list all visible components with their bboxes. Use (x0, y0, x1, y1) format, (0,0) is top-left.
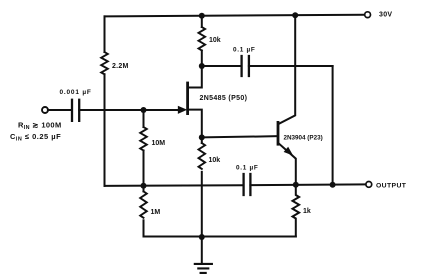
wire drain node to cap (202, 65, 242, 67)
wire output line right segment (250, 183, 365, 186)
junction dot 10M-1M-output line (141, 183, 147, 189)
wire right vertical (332, 66, 334, 185)
resistor 10k (drain) (199, 27, 206, 51)
resistor 2.2M (101, 52, 108, 74)
JFET 2N5485 gate arrow (178, 106, 186, 113)
svg-text:0.001 µF: 0.001 µF (60, 89, 92, 96)
ground (201, 237, 203, 264)
junction dot ground line (199, 234, 205, 240)
junction dot rail-10k (199, 13, 205, 19)
wire left vertical lower (2.2M to output line) (104, 74, 106, 186)
svg-text:1k: 1k (303, 208, 311, 215)
terminal input (42, 107, 48, 113)
junction dot gate-10M (141, 107, 147, 113)
svg-text:1M: 1M (151, 209, 161, 216)
resistor 1M (140, 191, 147, 217)
wire 1M bottom / ground line (144, 236, 296, 238)
resistor 1k (292, 185, 299, 237)
svg-text:2N5485 (P50): 2N5485 (P50) (200, 95, 248, 102)
junction dot emitter-output (293, 182, 299, 188)
junction dot drain node (199, 63, 205, 69)
svg-text:10k: 10k (209, 157, 221, 164)
terminal 30V (365, 12, 371, 18)
svg-text:2.2M: 2.2M (112, 63, 129, 70)
junction dot rail-collector (292, 12, 298, 18)
wire middle vertical rail lead (201, 16, 203, 27)
svg-text:10k: 10k (209, 37, 221, 44)
wire source to 10k2 (201, 137, 203, 143)
wire top supply rail (105, 15, 365, 17)
BJT 2N3904 emitter (279, 144, 296, 185)
JFET 2N5485 source lead (189, 110, 202, 138)
svg-text:0.1 µF: 0.1 µF (236, 165, 258, 172)
capacitor 0.1uF bottom (244, 174, 251, 195)
JFET 2N5485 gate wire (144, 109, 179, 111)
wire left vertical upper (rail to 2.2M) (104, 16, 106, 52)
wire 10M bottom lead (143, 151, 145, 186)
wire 10k2 to ground line (201, 172, 203, 237)
wire cap to gate (79, 109, 178, 111)
svg-text:OUTPUT: OUTPUT (376, 182, 407, 189)
BJT 2N3904 emitter arrow (284, 147, 292, 155)
svg-text:30V: 30V (379, 12, 392, 19)
svg-text:RIN ≳ 100M: RIN ≳ 100M (18, 121, 62, 132)
wire 1M top lead (143, 186, 145, 192)
wire output line left segment (105, 184, 243, 187)
capacitor 0.001uF (72, 100, 79, 121)
wire 10M top lead (143, 110, 145, 127)
junction dot source node (199, 134, 205, 140)
svg-text:CIN ≤ 0.25 µF: CIN ≤ 0.25 µF (10, 132, 61, 143)
svg-text:0.1 µF: 0.1 µF (233, 46, 255, 53)
wire base (source node to BJT base) (202, 136, 277, 137)
svg-text:10M: 10M (152, 140, 166, 147)
JFET 2N5485 drain lead (189, 66, 202, 88)
wire cap to right vertical (249, 65, 333, 67)
svg-text:2N3904 (P23): 2N3904 (P23) (284, 134, 323, 141)
wire 10k to drain node (201, 51, 203, 67)
JFET 2N5485 channel bar (186, 83, 189, 114)
wire input to cap (48, 109, 72, 111)
capacitor 0.1uF top (242, 56, 249, 76)
terminal OUTPUT (366, 182, 372, 188)
junction dot right vertical-output (330, 182, 336, 188)
BJT 2N3904 base bar (277, 122, 280, 144)
resistor 10k (source) (199, 143, 206, 169)
resistor 10M (140, 127, 147, 150)
BJT 2N3904 collector (279, 15, 295, 124)
wire 1M to ground line (143, 220, 145, 236)
